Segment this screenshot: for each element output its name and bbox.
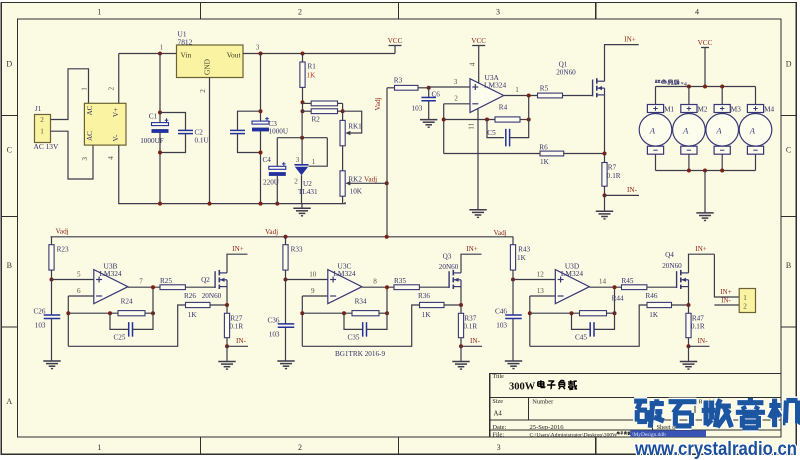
svg-text:1: 1 (312, 158, 316, 166)
junction gnd rail C1 (158, 202, 162, 206)
wire Cx link top (238, 111, 261, 130)
wire Q4 source down (688, 287, 690, 305)
junction R1 top (301, 52, 305, 56)
wire RK1 wiper loop (343, 111, 362, 133)
junction R37 bottom (459, 344, 463, 348)
wire C2 link top (160, 113, 186, 131)
svg-text:R44: R44 (612, 295, 624, 303)
wire R1 to R2 node (302, 102, 304, 111)
wire op-amp pin3 input (429, 86, 470, 88)
wire bridge pin2 to Vin rail (118, 54, 120, 104)
svg-text:20N60: 20N60 (202, 292, 222, 300)
svg-text:R2: R2 (312, 116, 321, 124)
svg-text:IN-: IN- (721, 297, 731, 305)
wire Cx link bottom (238, 134, 261, 153)
wire + input row U3C (286, 279, 328, 281)
ground R37 (452, 361, 469, 363)
wire Vin rail (119, 53, 177, 55)
wire C5 left branch (487, 120, 504, 138)
junction Cx-C3 top link (259, 109, 263, 113)
wire Q2 drain to IN+ (227, 254, 248, 273)
svg-text:2: 2 (108, 86, 116, 90)
svg-text:C1: C1 (149, 113, 158, 121)
svg-text:11: 11 (468, 122, 476, 129)
svg-text:2: 2 (199, 89, 207, 93)
wire R7 to ground (604, 195, 606, 211)
resistor R2 upper (303, 102, 312, 104)
output connector (739, 289, 755, 313)
junction R47 bottom (687, 344, 691, 348)
wire C26 column (51, 280, 53, 316)
op-amp U3C (328, 270, 362, 304)
svg-text:R45: R45 (622, 277, 634, 285)
resistor R23 (51, 237, 53, 245)
resistor R43 (512, 237, 514, 245)
op-amp U3D (555, 270, 589, 304)
wire R6 row (444, 153, 540, 155)
title block frame (490, 374, 781, 437)
svg-text:IN+: IN+ (720, 288, 731, 296)
svg-text:103: 103 (412, 105, 423, 113)
junction C3 top (259, 52, 263, 56)
trimmer RK2 (340, 171, 345, 196)
wire R44 row (530, 312, 580, 314)
resistor R1 (302, 54, 304, 63)
svg-text:3: 3 (256, 44, 260, 52)
capacitor C46 (505, 314, 522, 316)
svg-text:1: 1 (97, 8, 101, 17)
svg-text:3: 3 (296, 156, 300, 164)
zone dividers bottom (200, 437, 202, 454)
svg-text:Q4: Q4 (665, 251, 674, 259)
wire + input row U3D (513, 279, 555, 281)
junction R2 lower (301, 109, 305, 113)
wire R47 to ground (688, 346, 690, 361)
junction fan bottom center (703, 169, 707, 173)
connector J1 (35, 115, 51, 143)
svg-text:103: 103 (269, 330, 280, 338)
transistor Q1 (592, 80, 594, 97)
svg-text:M1: M1 (664, 106, 674, 114)
svg-text:Q1: Q1 (559, 61, 568, 69)
svg-text:4: 4 (695, 8, 699, 17)
wire C45 right branch (594, 287, 615, 329)
resistor R3 (387, 87, 395, 89)
svg-text:M3: M3 (731, 106, 741, 114)
svg-text:R37: R37 (464, 314, 476, 322)
svg-text:RK2: RK2 (348, 175, 362, 183)
svg-text:M2: M2 (698, 106, 708, 114)
svg-text:IN-: IN- (698, 337, 709, 345)
junction feedback U3D (528, 311, 532, 315)
wire R4 row (444, 119, 495, 121)
ground U3A pin11 (469, 209, 486, 211)
svg-text:LM324: LM324 (333, 269, 355, 278)
svg-text:Q2: Q2 (201, 276, 210, 284)
trimmer RK1 (342, 111, 344, 120)
resistor R47 (688, 305, 690, 313)
zone dividers top (200, 3, 202, 19)
resistor R7 (604, 154, 606, 163)
svg-text:R23: R23 (57, 246, 69, 254)
resistor R35 (394, 285, 419, 290)
wire output row U3D (589, 286, 621, 288)
svg-text:C46: C46 (495, 308, 507, 316)
svg-text:Vout: Vout (227, 51, 242, 60)
svg-text:R26: R26 (184, 292, 196, 300)
svg-text:1K: 1K (422, 311, 432, 319)
junction R3-C6 (427, 86, 431, 90)
junction R4 row left (442, 118, 446, 122)
resistor R34 (352, 311, 379, 316)
svg-text:B: B (7, 261, 12, 270)
svg-text:3: 3 (81, 157, 89, 161)
resistor R5 (538, 93, 563, 98)
wire Q2 source down (226, 287, 228, 305)
svg-text:2: 2 (294, 178, 298, 186)
svg-text:IN+: IN+ (466, 245, 478, 253)
junction ref net (300, 136, 304, 140)
svg-text:AC: AC (86, 105, 94, 115)
wire VCC rail from U1 Vout (243, 53, 395, 55)
junction + input U3B (50, 278, 54, 282)
power port VCC op-amp (472, 45, 485, 47)
wire U3A pin11 to ground (477, 108, 479, 210)
junction R44 right (613, 311, 617, 315)
transistor Q3 (448, 271, 450, 288)
svg-text:IN+: IN+ (624, 36, 636, 44)
svg-text:Vadj: Vadj (494, 229, 507, 237)
junction output U3C (385, 285, 389, 289)
junction output node U3A (527, 94, 531, 98)
svg-text:VCC: VCC (388, 37, 403, 45)
svg-text:LM324: LM324 (561, 269, 583, 278)
svg-text:V-: V- (112, 134, 120, 142)
svg-text:AC: AC (86, 131, 94, 141)
junction R26-Q2 source (225, 303, 229, 307)
svg-text:www.crystalradio.cn: www.crystalradio.cn (634, 438, 797, 460)
junction fan bottom M2 (687, 169, 691, 173)
svg-text:2: 2 (454, 95, 458, 103)
svg-text:R6: R6 (539, 144, 548, 152)
transistor Q4 (676, 271, 678, 288)
resistor R44 (580, 311, 607, 316)
junction R34 left (342, 311, 346, 315)
capacitor C45 (589, 322, 591, 337)
svg-text:C35: C35 (348, 333, 360, 341)
resistor R6 (540, 151, 564, 156)
junction gnd rail U1 pin2 (208, 202, 212, 206)
wire bottom feedback row U3D (530, 305, 647, 346)
svg-text:D: D (786, 60, 792, 69)
junction feedback U3B (66, 311, 70, 315)
wire R2 node to U2 cathode (301, 111, 303, 164)
ground C46 (505, 360, 522, 362)
svg-text:6: 6 (77, 287, 81, 295)
junction R36-Q3 source (459, 303, 463, 307)
svg-text:1000UF: 1000UF (140, 137, 164, 145)
capacitor C35 (362, 322, 364, 337)
svg-text:4: 4 (107, 156, 115, 160)
svg-text:C2: C2 (195, 129, 204, 137)
svg-text:1K: 1K (307, 72, 317, 80)
transistor Q2 (214, 271, 216, 288)
wire C6 column (428, 88, 430, 98)
svg-text:300W: 300W (509, 382, 536, 393)
svg-text:1: 1 (97, 443, 101, 452)
svg-text:C36: C36 (268, 316, 280, 324)
svg-text:Q3: Q3 (443, 252, 452, 260)
ground C6 (420, 119, 437, 121)
wire C46 column (512, 280, 514, 316)
op-amp U3B (94, 270, 128, 304)
svg-text:IN-: IN- (236, 337, 247, 345)
wire C36 column (285, 280, 287, 324)
svg-text:12: 12 (537, 271, 545, 279)
wire fan top rail (656, 86, 756, 88)
capacitor C25 (128, 322, 130, 337)
junction R24 right (151, 311, 155, 315)
junction Vadj rail drop (385, 235, 389, 239)
wire fan rail to ground (704, 171, 706, 213)
junction R46-Q4 source (687, 303, 691, 307)
resistor R45 (622, 285, 647, 290)
wire feedback vertical U3A (443, 104, 445, 154)
svg-text:IN-: IN- (627, 186, 638, 194)
junction feedback U3C (300, 311, 304, 315)
junction + input U3C (284, 278, 288, 282)
svg-text:R27: R27 (230, 314, 242, 322)
wire output row U3B (128, 286, 160, 288)
wire Q3 drain to IN+ (461, 254, 482, 273)
regulator U1 7812 (177, 45, 244, 78)
ground R47 (680, 361, 697, 363)
resistor R36 (420, 302, 445, 307)
ground R27 (218, 361, 235, 363)
junction gnd rail C3 (259, 202, 263, 206)
resistor R46 (647, 302, 672, 307)
svg-text:J1: J1 (35, 105, 42, 113)
wire C1 column (159, 54, 161, 125)
watermark kuangshi shouyinji (634, 397, 647, 405)
wire C3 column (260, 54, 262, 123)
junction fan rail M3 (720, 85, 724, 89)
svg-text:VCC: VCC (698, 39, 713, 47)
wire C35 right branch (367, 287, 388, 329)
wire main gnd rail (119, 145, 345, 204)
svg-text:0.1R: 0.1R (607, 172, 621, 180)
file path selection highlight (630, 430, 706, 437)
svg-text:2: 2 (298, 8, 302, 17)
wire C2 link bottom (160, 134, 186, 153)
wire op-amp pin2 input (444, 103, 470, 105)
resistor R2 lower (303, 110, 312, 112)
svg-text:2: 2 (743, 303, 747, 311)
wire Q1 drain to IN+ (605, 45, 639, 82)
junction R2 upper (301, 100, 305, 104)
resistor R37 (460, 305, 462, 313)
svg-text:0.1R: 0.1R (229, 323, 243, 331)
svg-text:M4: M4 (764, 106, 774, 114)
svg-text:U2: U2 (303, 180, 312, 188)
resistor R24 (118, 311, 145, 316)
wire Q4 drain to IN+ top (689, 254, 715, 273)
svg-text:25-Sep-2016: 25-Sep-2016 (530, 424, 565, 431)
power port VCC fans (701, 47, 709, 49)
svg-text:Vadj: Vadj (265, 228, 278, 236)
svg-text:2: 2 (40, 116, 44, 124)
wire U2 pin1 loop (309, 138, 328, 167)
wire - input row U3D (530, 295, 556, 297)
wire U1 pin2 gnd (209, 78, 211, 204)
svg-text:A: A (749, 125, 756, 135)
svg-text:8: 8 (373, 278, 377, 286)
wire C25 left branch (110, 313, 129, 329)
capacitor C26 (44, 314, 61, 316)
svg-text:1K: 1K (188, 311, 198, 319)
wire C4 bottom (276, 176, 278, 204)
junction Vadj rail channel C (284, 235, 288, 239)
svg-text:Vadj: Vadj (374, 97, 382, 110)
svg-text:3: 3 (496, 8, 500, 17)
capacitor C6 (421, 96, 436, 98)
svg-text:A: A (715, 125, 722, 135)
svg-text:4: 4 (469, 62, 477, 66)
svg-text:R7: R7 (608, 164, 617, 172)
svg-text:C25: C25 (114, 333, 126, 341)
junction R27 bottom (225, 344, 229, 348)
wire J1 pin2 to bridge pin1 (51, 69, 89, 120)
junction C1-C2 top link (158, 111, 162, 115)
svg-text:GND: GND (203, 58, 212, 75)
svg-text:1: 1 (743, 294, 747, 302)
wire RK1 to RK2 (342, 146, 344, 171)
wire Vadj bottom rail (51, 236, 514, 238)
svg-text:103: 103 (496, 322, 507, 330)
wire - input row U3B (68, 295, 94, 297)
svg-text:1K: 1K (540, 158, 550, 166)
wire R2 right tie (342, 103, 344, 111)
svg-text:RK1: RK1 (348, 123, 362, 131)
zone dividers right (781, 115, 796, 117)
wire IN+ to connector pin1 (714, 254, 739, 297)
junction R7 bottom (603, 193, 607, 197)
svg-text:R46: R46 (646, 292, 658, 300)
wire output row U3C (362, 286, 394, 288)
wire R37 to ground (460, 346, 462, 361)
wire IN- stub Q3 (461, 345, 482, 347)
svg-text:1000U: 1000U (269, 128, 289, 136)
svg-text:C: C (7, 146, 12, 155)
svg-text:R3: R3 (394, 77, 403, 85)
svg-text:LM324: LM324 (484, 80, 506, 89)
wire R34 row (302, 312, 352, 314)
junction R44 left (570, 311, 574, 315)
svg-text:1K: 1K (649, 311, 659, 319)
svg-text:VCC: VCC (471, 37, 486, 45)
svg-text:Title: Title (492, 373, 504, 380)
wire bottom feedback row U3B (68, 305, 185, 346)
svg-text:V+: V+ (112, 108, 120, 117)
svg-text:7812: 7812 (178, 37, 193, 46)
ground C36 (277, 360, 294, 362)
svg-text:3: 3 (497, 443, 501, 452)
shunt regulator U2 TL431 (295, 164, 309, 166)
op-amp U3A (470, 79, 504, 113)
svg-text:0.1U: 0.1U (195, 137, 210, 145)
svg-text:Date:: Date: (492, 424, 506, 431)
wire feedback vertical U3C (301, 296, 303, 346)
svg-text:0.1R: 0.1R (463, 323, 477, 331)
ground C26 (43, 360, 60, 362)
wire U3A output (504, 95, 538, 97)
junction R24 left (108, 311, 112, 315)
wire feedback vertical U3B (67, 296, 69, 346)
svg-text:R36: R36 (418, 292, 430, 300)
svg-text:IN+: IN+ (232, 245, 244, 253)
wire Q1 source down (604, 95, 606, 154)
svg-text:20N60: 20N60 (439, 263, 459, 271)
junction gnd rail C4 (275, 202, 279, 206)
svg-text:C6: C6 (432, 91, 441, 99)
resistor R26 (186, 302, 211, 307)
svg-text:2: 2 (298, 443, 302, 452)
wire C45 left branch (572, 313, 591, 329)
svg-text:10: 10 (309, 271, 317, 279)
svg-text:1: 1 (81, 87, 89, 91)
capacitor C2 (178, 129, 193, 131)
ground main rail (301, 204, 303, 209)
junction fan rail VCC (703, 85, 707, 89)
wire C25 right branch (133, 287, 154, 329)
capacitor C3 (252, 121, 269, 124)
svg-text:20N60: 20N60 (556, 69, 576, 77)
svg-text:R4: R4 (499, 104, 508, 112)
resistor R27 (226, 305, 228, 313)
svg-text:Vadj: Vadj (364, 175, 377, 183)
svg-text:R24: R24 (121, 297, 133, 305)
motor M1 (655, 87, 657, 105)
svg-text:AC 13V: AC 13V (34, 142, 60, 151)
motor M3 (721, 87, 723, 105)
wire feedback vertical U3D (529, 296, 531, 346)
resistor R25 (160, 285, 185, 290)
wire + input row U3B (52, 279, 94, 281)
svg-text:R1: R1 (308, 63, 317, 71)
wire RK2 wiper to Vadj net (350, 182, 386, 184)
wire C35 left branch (344, 313, 363, 329)
junction + input U3D (511, 278, 515, 282)
wire connector pin2 stub (714, 304, 739, 306)
svg-text:1: 1 (160, 44, 164, 52)
wire fan bottom rail (656, 170, 756, 172)
svg-text:LM324: LM324 (99, 269, 121, 278)
svg-text:\MyDesign.ddb: \MyDesign.ddb (632, 432, 666, 438)
motor M4 (755, 87, 757, 105)
ground fans (696, 212, 713, 214)
wire - input row U3C (302, 295, 328, 297)
svg-text:R25: R25 (160, 277, 172, 285)
svg-text:Vadj: Vadj (56, 228, 69, 236)
svg-text:D: D (6, 60, 12, 69)
wire RK2 bottom to gnd rail (342, 196, 344, 203)
power port VCC main (389, 45, 402, 47)
ground R7 (596, 210, 613, 212)
junction fan rail M2 (687, 85, 691, 89)
wire VCC to fan rail (704, 48, 706, 87)
junction R34 right (385, 311, 389, 315)
svg-text:14: 14 (599, 278, 607, 286)
